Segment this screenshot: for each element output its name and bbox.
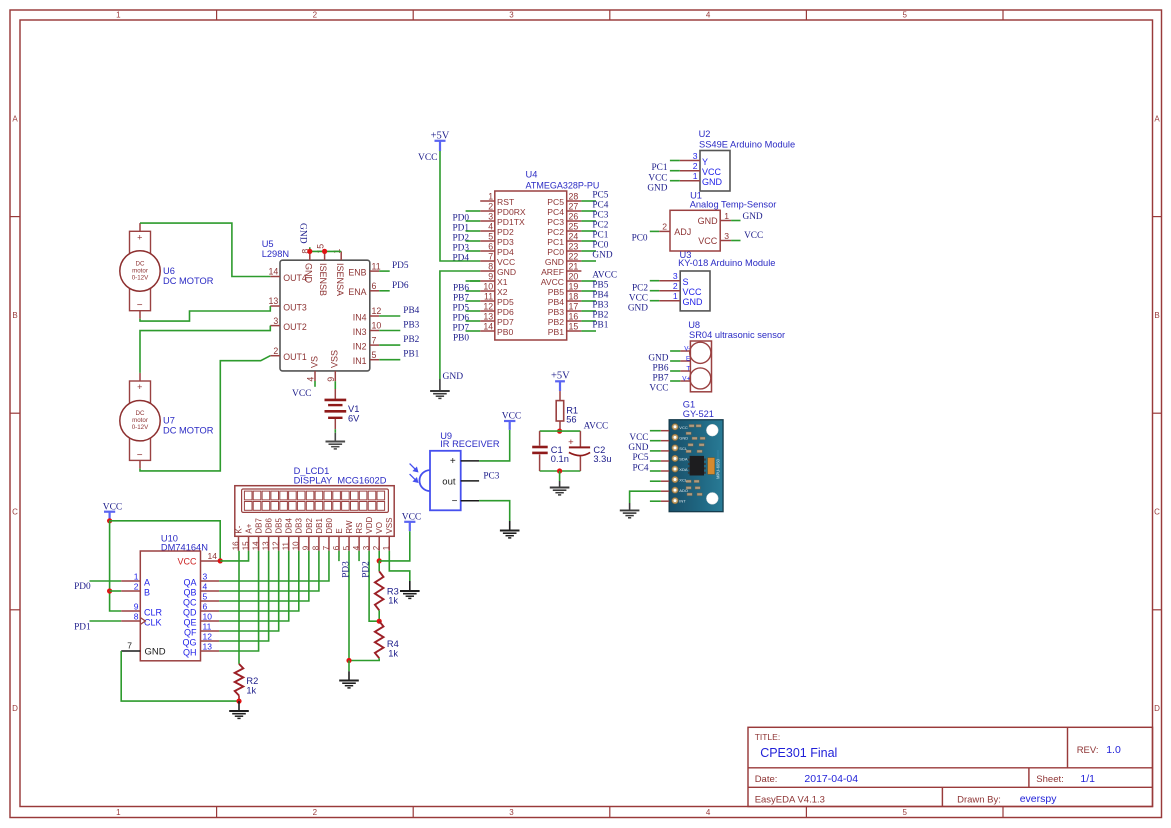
svg-text:+5V: +5V: [551, 371, 570, 382]
svg-text:+5V: +5V: [431, 130, 450, 141]
wire: [670, 170, 680, 172]
svg-text:QG: QG: [182, 637, 196, 647]
wire: [466, 310, 481, 312]
svg-text:PC4: PC4: [547, 207, 564, 217]
U4 pin 5 PD3: [480, 240, 495, 242]
U4 pin 4 PD2: [480, 230, 495, 232]
wire: [466, 220, 481, 222]
wire U10 GND to R2 bottom: [121, 651, 239, 701]
wire U10 QC to LCD: [219, 551, 309, 601]
U4 pin 23 PC0: [567, 250, 582, 252]
svg-text:27: 27: [569, 201, 579, 211]
U10 pin 9 CLR: [121, 610, 140, 612]
svg-text:4: 4: [706, 11, 711, 20]
svg-text:GND: GND: [698, 216, 719, 226]
svg-text:U8: U8: [688, 320, 700, 330]
wire G1 ADO to ground: [630, 491, 661, 503]
wire: [581, 230, 596, 232]
wire U10 QG to LCD: [219, 551, 268, 641]
wire: [650, 230, 659, 232]
svg-text:PB5: PB5: [592, 281, 608, 291]
svg-text:PC1: PC1: [651, 163, 667, 173]
svg-text:1: 1: [116, 11, 121, 20]
svg-text:PB4: PB4: [403, 306, 419, 316]
svg-text:8: 8: [312, 545, 321, 550]
svg-text:SR04 ultrasonic sensor: SR04 ultrasonic sensor: [689, 330, 785, 340]
svg-text:PD0RX: PD0RX: [497, 207, 526, 217]
U1 pin 2 ADJ: [659, 230, 670, 232]
svg-text:1/1: 1/1: [1080, 773, 1095, 785]
wire: [466, 230, 481, 232]
wire +5V to U4 pin 7 VCC: [440, 151, 480, 261]
svg-text:3: 3: [724, 231, 729, 241]
svg-text:PB2: PB2: [592, 311, 608, 321]
wire GND-ISENSB-ISENSA tie: [310, 247, 341, 251]
frame row tick: [10, 412, 20, 414]
svg-text:EasyEDA V4.1.3: EasyEDA V4.1.3: [755, 794, 825, 805]
wire: [581, 210, 596, 212]
wire U7 plus to U5 OUT2: [139, 373, 141, 381]
G1 pin: [661, 430, 669, 432]
wire: [379, 270, 390, 272]
wire U10 QA to LCD: [219, 551, 329, 581]
wire R3 to junction: [378, 610, 380, 621]
svg-text:PC3: PC3: [483, 472, 499, 482]
U4 pin 19 PB5: [567, 290, 582, 292]
wire: [650, 290, 659, 292]
svg-text:0-12V: 0-12V: [132, 424, 149, 431]
svg-text:VO: VO: [375, 522, 384, 534]
svg-text:15: 15: [241, 541, 250, 550]
U10 pin 11 QF: [201, 630, 220, 632]
U9 pin - (minus): [461, 500, 479, 502]
svg-text:PC3: PC3: [547, 217, 564, 227]
svg-text:PD2: PD2: [362, 561, 372, 578]
svg-text:PB2: PB2: [403, 335, 419, 345]
svg-text:GND: GND: [298, 223, 308, 244]
svg-text:DB4: DB4: [285, 517, 294, 533]
wire AVCC top rail: [540, 430, 581, 432]
U10 pin 13 QH: [201, 650, 220, 652]
svg-text:6: 6: [332, 545, 341, 550]
svg-text:INT: INT: [679, 499, 686, 504]
motor U6 DC MOTOR: [130, 231, 151, 310]
svg-text:PB5: PB5: [548, 287, 564, 297]
wire to U10 pin 2 B: [110, 590, 122, 592]
svg-text:10: 10: [203, 612, 213, 622]
U4 pin 3 PD1TX: [480, 220, 495, 222]
wire LCD E stub: [338, 551, 340, 561]
svg-text:QB: QB: [183, 587, 196, 597]
U10 pin 2 B: [121, 590, 140, 592]
wire: [670, 350, 680, 352]
svg-text:28: 28: [569, 191, 579, 201]
frame row tick: [10, 609, 20, 611]
svg-text:R2: R2: [246, 676, 258, 686]
wire U6 plus to U5 OUT4: [139, 223, 141, 231]
svg-text:2: 2: [313, 11, 318, 20]
svg-text:17: 17: [569, 301, 579, 311]
wire: [581, 200, 596, 202]
frame column tick: [412, 10, 414, 20]
U5 pin 1 ISENSA: [340, 251, 342, 260]
svg-text:Date:: Date:: [755, 774, 778, 785]
svg-text:DC MOTOR: DC MOTOR: [163, 276, 214, 286]
frame column tick: [609, 10, 611, 20]
svg-text:2: 2: [313, 808, 318, 817]
svg-text:9: 9: [326, 377, 336, 382]
U4 pin 16 PB2: [567, 320, 582, 322]
svg-text:PD1TX: PD1TX: [497, 217, 525, 227]
svg-text:U4: U4: [526, 170, 538, 180]
svg-text:GND: GND: [497, 267, 516, 277]
svg-text:6: 6: [488, 241, 493, 251]
wire U4 pin 8 GND down: [440, 271, 480, 379]
U5 pin 2 OUT1: [270, 355, 280, 357]
svg-text:23: 23: [569, 241, 579, 251]
wire: [650, 430, 661, 432]
svg-text:DB6: DB6: [265, 517, 274, 533]
wire: [581, 220, 596, 222]
svg-text:3: 3: [509, 11, 514, 20]
svg-text:56: 56: [566, 415, 576, 425]
wire: [466, 240, 481, 242]
sensor U8 SR04 body: [690, 341, 711, 392]
svg-text:PB3: PB3: [592, 301, 608, 311]
svg-text:16: 16: [231, 541, 240, 550]
svg-text:VCC: VCC: [292, 389, 312, 399]
svg-text:U7: U7: [163, 416, 175, 426]
svg-text:19: 19: [569, 281, 579, 291]
svg-text:20: 20: [569, 271, 579, 281]
svg-text:1k: 1k: [388, 648, 398, 658]
svg-text:24: 24: [569, 231, 579, 241]
svg-text:2: 2: [673, 281, 678, 291]
U5 pin 13 OUT3: [270, 305, 280, 307]
D_LCD1 pin 15 A+: [248, 536, 250, 551]
D_LCD1 pin 8 DB1: [318, 536, 320, 551]
svg-text:PB2: PB2: [548, 317, 564, 327]
resistor R4: [375, 621, 384, 658]
U5 pin 4 VS: [314, 371, 316, 381]
svg-text:PD7: PD7: [497, 317, 514, 327]
svg-text:1: 1: [693, 171, 698, 181]
ground symbol for G1 ADO: [629, 503, 631, 510]
U4 pin 13 PD7: [480, 320, 495, 322]
svg-text:CPE301 Final: CPE301 Final: [760, 746, 837, 760]
wire PD1 to U10 pin 8 CLK: [90, 620, 122, 622]
svg-text:X2: X2: [497, 287, 508, 297]
U4 pin 21 AREF: [567, 270, 582, 272]
G1 pin: [661, 460, 669, 462]
svg-text:GND: GND: [628, 443, 648, 453]
svg-text:16: 16: [569, 311, 579, 321]
junction dot U5 pin 15: [322, 249, 327, 254]
svg-text:VCC: VCC: [502, 411, 522, 421]
svg-text:REV:: REV:: [1077, 745, 1099, 756]
svg-text:XCL: XCL: [679, 478, 688, 483]
svg-text:4: 4: [488, 221, 493, 231]
U10 CLK triangle: [140, 618, 145, 625]
ground symbol below V1: [334, 433, 336, 442]
wire: [670, 370, 680, 372]
wire: [650, 440, 661, 442]
U2 pin 3 Y: [680, 160, 700, 162]
svg-text:VSS: VSS: [385, 518, 394, 534]
U4 pin 1 RST: [480, 200, 495, 202]
svg-text:ISENSA: ISENSA: [335, 263, 345, 296]
svg-text:SS49E Arduino Module: SS49E Arduino Module: [699, 139, 795, 149]
U10 pin 12 QG: [201, 640, 220, 642]
svg-text:7: 7: [322, 545, 331, 550]
U4 pin 7 VCC: [480, 260, 495, 262]
svg-text:PD5: PD5: [497, 297, 514, 307]
D_LCD1 character area: [242, 489, 389, 512]
D_LCD1 pin 16 K-: [238, 536, 240, 551]
svg-text:+: +: [137, 232, 142, 242]
svg-text:13: 13: [261, 541, 270, 550]
svg-text:6: 6: [372, 281, 377, 291]
wire U10 QF to LCD: [219, 551, 279, 631]
svg-text:14: 14: [208, 551, 218, 561]
U5 pin 8 GND: [309, 251, 311, 260]
U4 pin 6 PD4: [480, 250, 495, 252]
U4 pin 22 GND: [567, 260, 582, 262]
svg-text:AREF: AREF: [541, 267, 564, 277]
svg-text:15: 15: [569, 321, 579, 331]
display D_LCD1 body: [235, 486, 394, 537]
svg-text:−: −: [137, 300, 143, 311]
U10 pin 6 QD: [201, 610, 220, 612]
svg-text:+: +: [568, 437, 574, 448]
svg-text:ENA: ENA: [348, 287, 366, 297]
svg-text:GND: GND: [628, 303, 648, 313]
D_LCD1 pin 2 VO: [378, 536, 380, 551]
wire: [581, 240, 596, 242]
svg-text:5: 5: [902, 808, 907, 817]
wire: [650, 460, 661, 462]
svg-text:VCC: VCC: [418, 153, 438, 163]
U5 pin 9 VSS: [334, 371, 336, 381]
svg-text:MPU-6050: MPU-6050: [715, 458, 720, 479]
U5 pin 3 OUT2: [270, 325, 280, 327]
G1 pin: [661, 500, 669, 502]
svg-text:3.3u: 3.3u: [593, 454, 611, 464]
svg-text:KY-018 Arduino Module: KY-018 Arduino Module: [678, 258, 775, 268]
D_LCD1 pin 1 VSS: [388, 536, 390, 551]
wire: [650, 470, 661, 472]
U9 IR arrows: [410, 464, 418, 483]
svg-text:OUT4: OUT4: [283, 273, 307, 283]
svg-text:PB1: PB1: [548, 327, 564, 337]
svg-text:3: 3: [509, 808, 514, 817]
D_LCD1 pin 10 DB3: [298, 536, 300, 551]
U5 pin 11 ENB: [370, 270, 379, 272]
svg-text:PC2: PC2: [592, 221, 608, 231]
U4 pin 27 PC4: [567, 210, 582, 212]
wire U10 QE to LCD: [219, 551, 289, 621]
node junction dot below R1 network: [557, 468, 562, 473]
svg-text:VCC: VCC: [629, 433, 648, 443]
wire VCC down to VO junction: [379, 531, 410, 561]
svg-text:10: 10: [483, 281, 493, 291]
svg-text:5: 5: [203, 592, 208, 602]
U4 pin 20 AVCC: [567, 280, 582, 282]
U4 pin 15 PB1: [567, 330, 582, 332]
svg-text:ISENSB: ISENSB: [318, 263, 328, 296]
svg-text:2: 2: [488, 201, 493, 211]
frame column tick: [216, 10, 218, 20]
U8 pin V-: [680, 350, 690, 352]
node AVCC junction dot: [557, 429, 562, 434]
svg-text:3: 3: [203, 572, 208, 582]
wire: [670, 380, 680, 382]
wire: [379, 330, 400, 332]
resistor R2: [235, 664, 244, 696]
svg-text:C: C: [12, 508, 18, 517]
svg-text:3: 3: [488, 211, 493, 221]
ground symbol below U9: [509, 521, 511, 531]
svg-text:PC5: PC5: [592, 191, 608, 201]
svg-text:5: 5: [342, 545, 351, 550]
svg-text:PB3: PB3: [403, 321, 419, 331]
resistor R1 body: [559, 391, 561, 401]
svg-text:RS: RS: [355, 522, 364, 533]
wire LCD A+ to VCC junction: [220, 551, 248, 561]
svg-text:A+: A+: [244, 523, 253, 533]
svg-text:D: D: [12, 704, 18, 713]
wire bottom rail: [540, 470, 581, 472]
D_LCD1 pin 11 DB4: [288, 536, 290, 551]
wire LCD RS stub: [358, 551, 360, 561]
svg-text:VCC: VCC: [698, 236, 718, 246]
ground symbol below R2: [238, 701, 240, 711]
svg-text:DISPLAY_MCG1602D: DISPLAY_MCG1602D: [294, 476, 387, 486]
svg-text:PB0: PB0: [497, 327, 513, 337]
svg-text:VCC: VCC: [679, 425, 688, 430]
U3 pin 3 S: [659, 280, 680, 282]
svg-text:13: 13: [483, 311, 493, 321]
U9 pin + (plus): [461, 460, 479, 462]
svg-text:VCC: VCC: [702, 167, 722, 177]
svg-text:PC2: PC2: [547, 227, 564, 237]
svg-text:IN3: IN3: [353, 327, 367, 337]
wire battery to ground: [334, 429, 336, 433]
svg-text:AVCC: AVCC: [592, 271, 617, 281]
svg-text:11: 11: [484, 291, 493, 301]
svg-text:8: 8: [488, 261, 493, 271]
svg-text:C: C: [1154, 508, 1160, 517]
svg-text:2: 2: [372, 545, 381, 550]
U4 pin 12 PD6: [480, 310, 495, 312]
svg-text:1: 1: [116, 808, 121, 817]
svg-text:1k: 1k: [388, 595, 398, 605]
svg-text:14: 14: [483, 321, 493, 331]
wire: [581, 300, 596, 302]
svg-text:motor: motor: [132, 268, 148, 275]
svg-text:DC: DC: [136, 261, 145, 268]
svg-text:T: T: [686, 365, 690, 372]
svg-text:9: 9: [488, 271, 493, 281]
junction dot at B row: [107, 588, 112, 593]
battery V1: [334, 389, 336, 399]
svg-text:PD6: PD6: [392, 281, 409, 291]
svg-text:PC4: PC4: [632, 463, 648, 473]
U8 pin T: [680, 370, 690, 372]
U2 pin 1 GND: [680, 180, 700, 182]
svg-text:ENB: ENB: [348, 267, 366, 277]
svg-text:9: 9: [302, 545, 311, 550]
wire: [470, 280, 480, 282]
svg-text:18: 18: [569, 291, 579, 301]
svg-text:U2: U2: [699, 129, 711, 139]
wire: [466, 210, 481, 212]
svg-text:3: 3: [362, 545, 371, 550]
wire U6 minus to U5 OUT3: [139, 311, 141, 319]
svg-text:AVCC: AVCC: [541, 277, 564, 287]
svg-text:DB5: DB5: [275, 517, 284, 533]
svg-text:13: 13: [203, 642, 213, 652]
junction dot R3-R4: [377, 619, 382, 624]
wire: [466, 280, 481, 282]
svg-text:GY-521: GY-521: [683, 409, 714, 419]
svg-text:+: +: [450, 456, 456, 467]
svg-text:6V: 6V: [348, 413, 360, 423]
svg-text:PB4: PB4: [548, 297, 564, 307]
svg-text:GND: GND: [683, 297, 704, 307]
svg-text:25: 25: [569, 221, 579, 231]
wire: [650, 450, 661, 452]
svg-text:PC5: PC5: [547, 197, 564, 207]
svg-text:GND: GND: [702, 177, 723, 187]
U4 pin 9 X1: [480, 280, 495, 282]
U5 pin 5 IN1: [370, 359, 379, 361]
wire U9 plus to VCC: [479, 430, 510, 461]
svg-text:A: A: [144, 577, 150, 587]
wire: [466, 330, 481, 332]
svg-text:PD2: PD2: [497, 227, 514, 237]
wire U7 minus to U5 OUT1: [139, 460, 141, 468]
wire: [731, 240, 740, 242]
U4 pin 28 PC5: [567, 200, 582, 202]
U10 pin 1 A: [121, 580, 140, 582]
U9 lens arc: [420, 470, 431, 491]
svg-text:1: 1: [488, 191, 493, 201]
U5 pin 10 IN3: [370, 330, 379, 332]
svg-text:9: 9: [134, 602, 139, 612]
svg-text:4: 4: [203, 582, 208, 592]
D_LCD1 pin 4 RS: [358, 536, 360, 551]
svg-text:13: 13: [269, 296, 279, 306]
svg-text:QH: QH: [183, 647, 197, 657]
svg-text:XDA: XDA: [679, 467, 688, 472]
svg-text:PC3: PC3: [592, 211, 608, 221]
svg-text:GND: GND: [545, 257, 564, 267]
svg-text:2017-04-04: 2017-04-04: [804, 773, 858, 785]
U1 pin 1 GND: [720, 220, 731, 222]
svg-text:12: 12: [203, 632, 213, 642]
svg-text:GND: GND: [303, 263, 313, 284]
U10 pin 3 QA: [201, 580, 220, 582]
svg-text:IN2: IN2: [353, 341, 367, 351]
svg-text:VCC: VCC: [683, 287, 703, 297]
wire: [379, 290, 390, 292]
wire VSS to battery: [334, 381, 336, 389]
wire U9 minus to ground: [479, 501, 510, 521]
svg-text:AVCC: AVCC: [584, 421, 609, 431]
svg-text:GND: GND: [648, 354, 668, 364]
D_LCD1 pin 14 DB7: [258, 536, 260, 551]
